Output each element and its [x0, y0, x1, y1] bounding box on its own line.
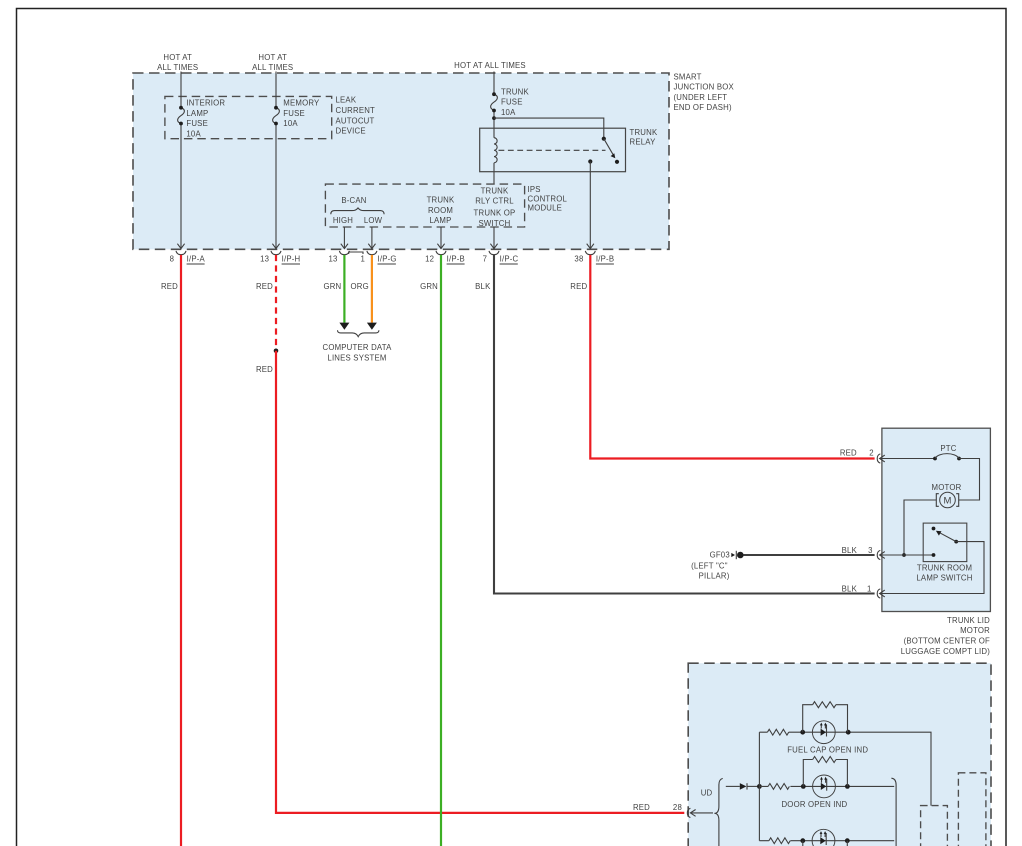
third row wire: [759, 840, 894, 842]
svg-text:3: 3: [868, 546, 873, 555]
relay coil: [494, 138, 497, 163]
motor pin 3 connector: [877, 550, 880, 559]
pin 13 connector cup (I/P-G high): [339, 251, 349, 255]
svg-text:UD: UD: [701, 789, 713, 798]
svg-text:TRUNK ROOM: TRUNK ROOM: [917, 563, 972, 572]
switch contact on ground line: [932, 553, 936, 557]
svg-text:RED: RED: [256, 365, 273, 374]
svg-text:10A: 10A: [501, 108, 516, 117]
wire: PTC to motor: [959, 459, 980, 501]
trunk room lamp switch box: [923, 523, 967, 562]
svg-text:INTERIOR: INTERIOR: [186, 99, 225, 108]
svg-text:END OF DASH): END OF DASH): [674, 103, 732, 112]
svg-text:I/P-C: I/P-C: [500, 255, 519, 264]
svg-text:BLK: BLK: [842, 585, 858, 594]
svg-text:MODULE: MODULE: [528, 204, 563, 213]
ground GF03 symbol: [731, 553, 735, 557]
arrowhead at SJB bottom (pin 13): [272, 244, 279, 249]
svg-text:MOTOR: MOTOR: [960, 626, 990, 635]
fuse trunk: [491, 94, 498, 110]
svg-text:BLK: BLK: [842, 546, 858, 555]
wire: branch to relay switch: [494, 118, 604, 139]
node third left: [800, 838, 805, 843]
wire: memory fuse feed: [275, 72, 277, 249]
pin 28 connector: [687, 808, 690, 817]
svg-text:ALL TIMES: ALL TIMES: [252, 63, 293, 72]
svg-text:I/P-G: I/P-G: [378, 255, 397, 264]
svg-text:LOW: LOW: [364, 216, 383, 225]
node door left: [801, 784, 806, 789]
svg-text:RLY CTRL: RLY CTRL: [475, 196, 514, 205]
bus wire (vertical): [758, 732, 760, 841]
svg-text:RED: RED: [840, 449, 857, 458]
svg-text:HIGH: HIGH: [333, 216, 353, 225]
svg-text:GF03: GF03: [710, 551, 730, 560]
door parallel resistor loop: [803, 760, 847, 787]
arrowhead at SJB bottom (pin 8): [177, 244, 184, 249]
svg-text:TRUNK: TRUNK: [630, 128, 658, 137]
node: bus junction: [757, 784, 762, 789]
curly brace at pin 28: [714, 778, 722, 846]
svg-text:RED: RED: [570, 282, 587, 291]
wire orange pin 1 (B-CAN low): [371, 255, 373, 323]
svg-text:TRUNK: TRUNK: [427, 196, 455, 205]
tie bar between pin 13 and pin 1 cups: [349, 252, 363, 254]
computer data brace: [338, 330, 379, 336]
wire: trunk op switch to pin 7: [493, 227, 495, 248]
LED fuel cap open ind: [812, 721, 835, 744]
svg-text:10A: 10A: [283, 119, 298, 128]
svg-text:RED: RED: [633, 803, 650, 812]
wire green pin 13 (B-CAN high): [343, 255, 345, 323]
svg-text:I/P-B: I/P-B: [596, 255, 614, 264]
svg-text:MEMORY: MEMORY: [283, 99, 320, 108]
svg-text:PTC: PTC: [940, 444, 956, 453]
svg-text:TRUNK LID: TRUNK LID: [947, 616, 990, 625]
node fuel cap right: [846, 730, 851, 735]
IPS control module dashed box: [325, 184, 524, 227]
svg-text:HOT AT: HOT AT: [258, 53, 287, 62]
svg-text:TRUNK: TRUNK: [481, 186, 509, 195]
svg-text:FUSE: FUSE: [501, 98, 523, 107]
svg-text:ORG: ORG: [351, 282, 369, 291]
svg-text:13: 13: [329, 255, 338, 264]
wire red pin 38 down and right to motor pin 2: [590, 255, 874, 459]
svg-text:PILLAR): PILLAR): [699, 572, 730, 581]
svg-text:LINES SYSTEM: LINES SYSTEM: [327, 353, 386, 362]
svg-text:FUEL CAP OPEN IND: FUEL CAP OPEN IND: [787, 745, 868, 754]
svg-text:ROOM: ROOM: [428, 206, 453, 215]
wire: GF03 to motor pin 3: [744, 554, 875, 556]
fuel cap parallel resistor loop: [803, 705, 848, 733]
wire red pin 8 down to bottom: [180, 255, 182, 846]
svg-text:FUSE: FUSE: [186, 119, 208, 128]
svg-text:SMART: SMART: [674, 72, 702, 81]
svg-text:LAMP: LAMP: [429, 216, 451, 225]
wire: relay output to pin 38: [589, 161, 591, 248]
small dashed box 1: [921, 806, 948, 846]
fuse memory: [273, 108, 280, 124]
svg-text:M: M: [944, 495, 952, 506]
pin 8 connector cup: [176, 251, 186, 255]
motor pin 2 connector: [877, 454, 880, 463]
wire: motor return to ground line: [904, 500, 936, 555]
junction node below trunk fuse: [492, 116, 496, 120]
switch arm with arrowhead: [940, 533, 956, 542]
wire red dashed pin 13: [275, 255, 277, 349]
wire black pin 7 down and right to motor pin 1: [494, 255, 875, 594]
wire: to diode: [726, 785, 740, 787]
right bracket grouping rows: [891, 778, 896, 846]
LED door open ind: [813, 775, 836, 798]
fuel door indicator dashed box: [688, 663, 991, 846]
motor pin 1 connector: [877, 589, 880, 598]
svg-text:CURRENT: CURRENT: [336, 106, 376, 115]
arrowhead at SJB bottom (pin 38): [587, 244, 594, 249]
svg-text:CONTROL: CONTROL: [528, 194, 568, 203]
relay switch open contact: [615, 160, 619, 164]
node third right: [845, 838, 850, 843]
svg-text:B-CAN: B-CAN: [341, 196, 366, 205]
arrow computer data (low): [367, 323, 377, 330]
switch pivot contact: [954, 540, 958, 544]
svg-text:FUSE: FUSE: [283, 109, 305, 118]
svg-text:1: 1: [361, 255, 366, 264]
svg-text:RED: RED: [161, 282, 178, 291]
wire green pin 12 down to bottom: [440, 255, 442, 846]
svg-text:13: 13: [260, 255, 269, 264]
svg-text:SWITCH: SWITCH: [479, 219, 511, 228]
trunk lid motor box: [882, 428, 991, 611]
pin 7 connector cup: [489, 251, 499, 255]
svg-text:7: 7: [483, 255, 488, 264]
svg-text:(BOTTOM CENTER OF: (BOTTOM CENTER OF: [904, 637, 990, 646]
PTC element: [933, 457, 937, 461]
node fuel cap left: [800, 730, 805, 735]
node door right: [845, 784, 850, 789]
svg-text:1: 1: [867, 585, 872, 594]
third row loop stubs: [803, 841, 848, 846]
LED third row: [812, 829, 835, 846]
fuel cap row wire: [759, 732, 931, 805]
relay switch common contact: [602, 137, 606, 141]
svg-text:2: 2: [869, 449, 874, 458]
wire: diode to bus: [747, 785, 759, 787]
resistor door series: [768, 784, 789, 790]
door row wire: [759, 785, 894, 787]
wire red solid pin 13 down and right to pin 28: [276, 351, 684, 813]
svg-text:I/P-B: I/P-B: [447, 255, 465, 264]
svg-text:GRN: GRN: [420, 282, 438, 291]
diode D1: [740, 783, 747, 790]
svg-text:8: 8: [170, 255, 175, 264]
svg-text:ALL TIMES: ALL TIMES: [157, 63, 198, 72]
svg-text:MOTOR: MOTOR: [932, 483, 962, 492]
svg-text:I/P-H: I/P-H: [282, 255, 301, 264]
splice dot on red wire: [274, 349, 279, 354]
svg-text:RELAY: RELAY: [630, 138, 657, 147]
svg-text:BLK: BLK: [475, 282, 491, 291]
wire: B-CAN low to pin 1: [371, 227, 373, 248]
smart junction box (dashed blue box): [133, 73, 669, 249]
svg-text:JUNCTION BOX: JUNCTION BOX: [674, 83, 735, 92]
svg-text:LAMP: LAMP: [186, 109, 208, 118]
wire: trunk fuse feed: [493, 72, 495, 185]
svg-text:LEAK: LEAK: [336, 96, 357, 105]
svg-text:I/P-A: I/P-A: [187, 255, 206, 264]
arrow computer data (high): [339, 323, 349, 330]
svg-text:28: 28: [673, 803, 682, 812]
wire: switch to pin 1: [880, 542, 984, 594]
svg-text:38: 38: [574, 255, 583, 264]
svg-text:(LEFT "C": (LEFT "C": [691, 561, 728, 570]
trunk relay box: [480, 128, 626, 172]
svg-text:DEVICE: DEVICE: [336, 127, 366, 136]
svg-text:(UNDER LEFT: (UNDER LEFT: [674, 93, 728, 102]
svg-text:IPS: IPS: [528, 185, 541, 194]
resistor fuel cap series: [767, 729, 788, 735]
svg-text:TRUNK: TRUNK: [501, 87, 529, 96]
pin 38 connector cup: [585, 251, 595, 255]
small dashed box 2: [958, 773, 986, 846]
relay mechanical link (dashed): [499, 149, 606, 151]
resistor third row: [769, 838, 790, 844]
svg-text:DOOR OPEN IND: DOOR OPEN IND: [781, 800, 847, 809]
relay switch contact (to pin 38): [588, 159, 592, 163]
wire: interior lamp fuse feed: [180, 72, 182, 249]
pin 12 connector cup: [436, 251, 446, 255]
B-CAN brace: [331, 208, 384, 214]
svg-text:LAMP SWITCH: LAMP SWITCH: [916, 574, 972, 583]
relay switch arm: [604, 139, 614, 156]
pin 13 connector cup (I/P-H): [271, 251, 281, 255]
svg-text:COMPUTER DATA: COMPUTER DATA: [322, 343, 392, 352]
svg-text:10A: 10A: [186, 130, 201, 139]
svg-text:GRN: GRN: [323, 282, 341, 291]
svg-text:HOT AT: HOT AT: [163, 53, 192, 62]
svg-text:RED: RED: [256, 282, 273, 291]
svg-text:TRUNK OP: TRUNK OP: [474, 208, 516, 217]
svg-text:HOT AT ALL TIMES: HOT AT ALL TIMES: [454, 61, 526, 70]
wire: B-CAN high to pin 13: [343, 227, 345, 248]
pin 1 connector cup (I/P-G low): [367, 251, 377, 255]
svg-text:12: 12: [425, 255, 434, 264]
wire: trunk room lamp to pin 12: [440, 227, 442, 248]
switch upper contact: [932, 527, 936, 531]
leak current autocut device dashed box: [165, 96, 332, 138]
svg-text:LUGGAGE COMPT LID): LUGGAGE COMPT LID): [901, 647, 990, 656]
svg-text:AUTOCUT: AUTOCUT: [336, 116, 375, 125]
fuse interior lamp: [178, 108, 185, 124]
